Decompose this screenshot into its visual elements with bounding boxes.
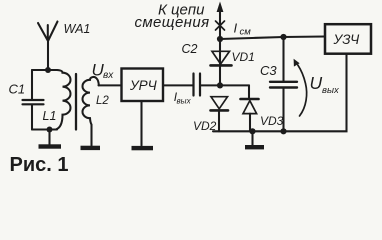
svg-text:см: см (240, 27, 252, 38)
svg-text:Рис. 1: Рис. 1 (10, 154, 69, 176)
svg-text:УЗЧ: УЗЧ (333, 32, 361, 47)
svg-text:L2: L2 (96, 95, 109, 107)
svg-text:смещения: смещения (134, 14, 209, 31)
svg-text:WA1: WA1 (64, 22, 91, 36)
svg-text:C2: C2 (182, 42, 198, 56)
svg-text:I: I (234, 21, 238, 36)
svg-text:C1: C1 (9, 82, 26, 97)
svg-text:VD2: VD2 (193, 119, 217, 133)
svg-text:C3: C3 (260, 63, 277, 78)
svg-text:УРЧ: УРЧ (129, 78, 158, 93)
svg-text:L1: L1 (43, 109, 57, 123)
svg-text:вых: вых (177, 97, 192, 106)
svg-text:вых: вых (322, 85, 340, 96)
svg-text:VD1: VD1 (232, 50, 255, 64)
svg-text:вх: вх (103, 70, 114, 81)
svg-text:U: U (310, 73, 323, 93)
svg-text:VD3: VD3 (260, 114, 284, 128)
